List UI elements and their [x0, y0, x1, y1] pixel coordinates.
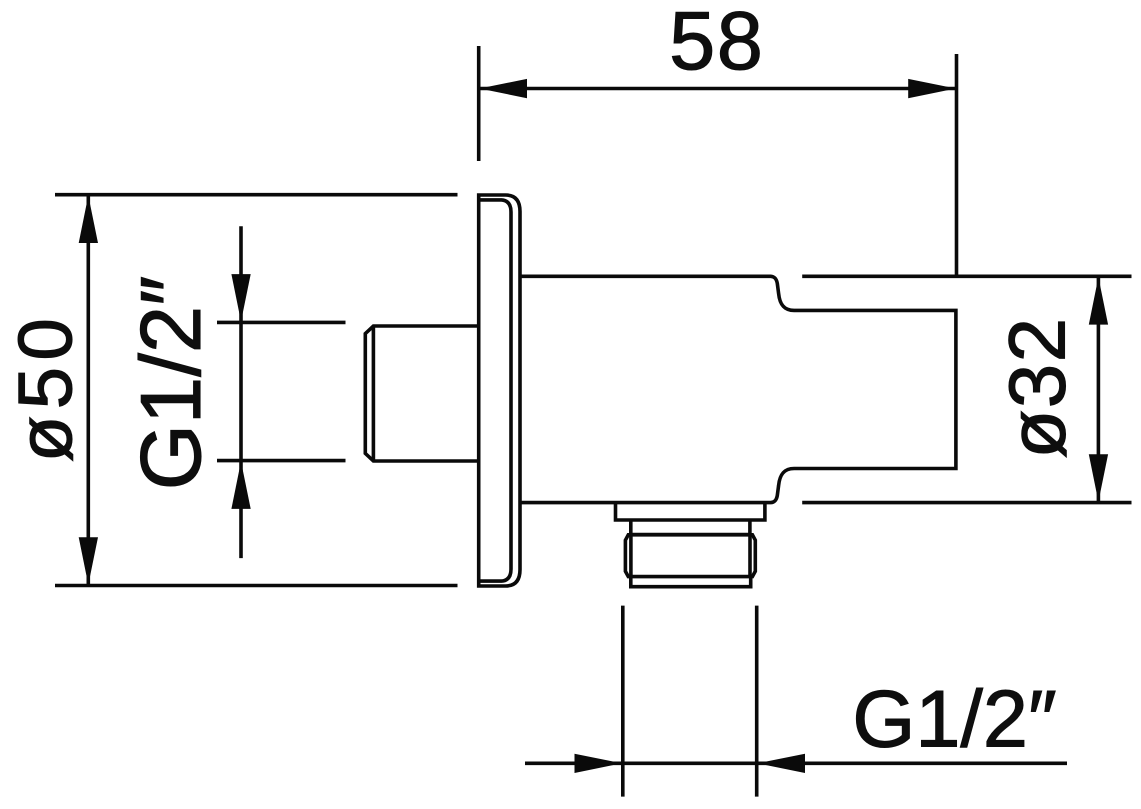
flange inner face contour: [479, 200, 511, 581]
outlet collar step 2: [631, 520, 750, 535]
dimension G1/2 outlet thread (bottom): [525, 606, 1067, 797]
body and holder outline: [520, 276, 956, 502]
svg-text:G1/2″: G1/2″: [124, 276, 219, 490]
nipple chamfer tangent line: [372, 326, 376, 461]
svg-text:ø50: ø50: [4, 312, 89, 462]
dimension G1/2 wall thread (left): [217, 226, 346, 558]
svg-text:ø32: ø32: [993, 316, 1082, 458]
svg-text:G1/2″: G1/2″: [852, 675, 1056, 765]
outlet thread chamfered: [625, 535, 755, 577]
wall-side nipple G1/2 thread: [365, 326, 478, 461]
outlet collar step 1: [616, 503, 765, 520]
dimension diameter 50 (left): [55, 195, 458, 586]
outlet end cap: [631, 577, 751, 587]
dimension 58 (top): [479, 46, 957, 276]
outlet thread tangent lines: [631, 535, 750, 577]
svg-text:58: 58: [669, 0, 764, 87]
dimension diameter 32 (right): [802, 276, 1131, 502]
flange outer outline: [479, 195, 520, 586]
